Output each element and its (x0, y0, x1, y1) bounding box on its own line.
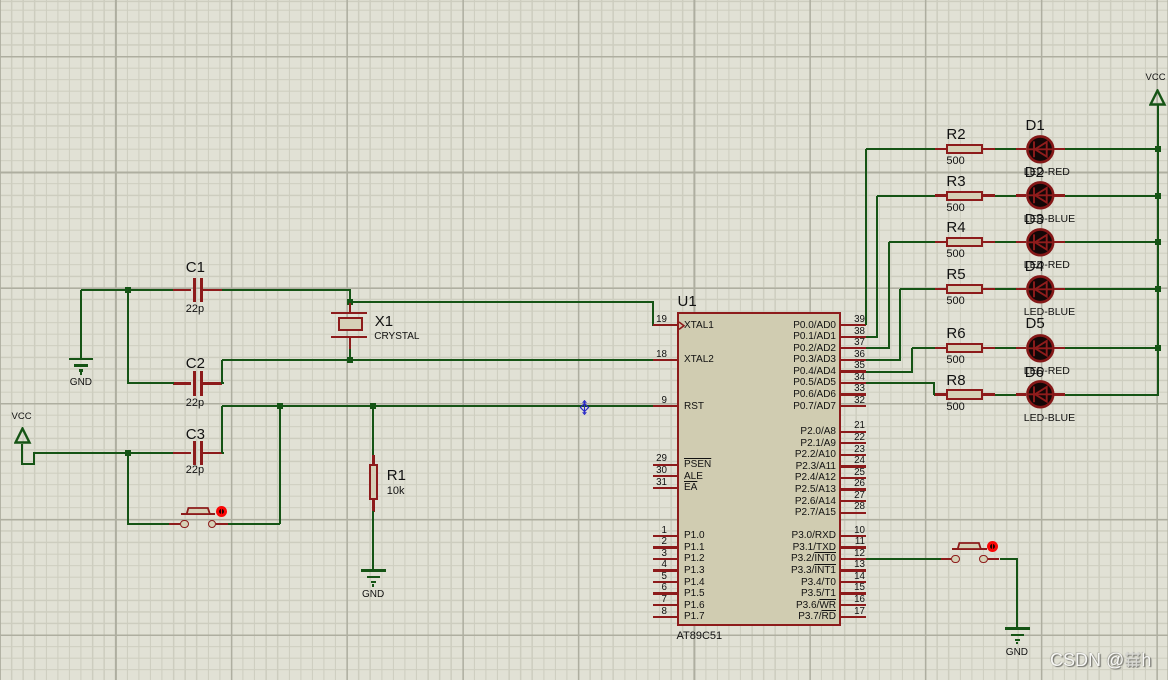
pin 24 stub (841, 465, 866, 467)
LED D2 right lead (1054, 194, 1065, 196)
pin number 35 (665, 360, 865, 371)
label D3 (1025, 211, 1044, 228)
capacitor C1 right lead (203, 289, 222, 291)
LED D4 right lead (1054, 288, 1065, 290)
wire riser R2 (865, 149, 867, 325)
wire resistor to LED (995, 394, 1017, 396)
wire crystal to XTAL2 row (349, 349, 351, 361)
value 500 of R3 (946, 202, 964, 215)
label D2 (1025, 164, 1044, 181)
wire resistor to LED (995, 347, 1017, 349)
pin label right (636, 377, 836, 389)
pin 34 stub (841, 382, 866, 384)
label R3 (946, 173, 965, 190)
pin number 3 (467, 548, 667, 559)
label U1 (678, 293, 697, 310)
junction bus row 5 (1155, 345, 1161, 351)
pin 1 stub (653, 535, 677, 537)
wire resistor to LED (995, 288, 1017, 290)
wire (33, 452, 35, 465)
pin label P1.7 (684, 611, 705, 623)
pin 26 stub (841, 488, 866, 490)
pin 21 stub (841, 431, 866, 433)
pin number 33 (665, 383, 865, 394)
label D5 (1026, 315, 1045, 332)
pin 12 stub (841, 558, 866, 560)
resistor R6 (946, 343, 983, 353)
resistor R4 (946, 237, 983, 247)
wire to ground (80, 290, 82, 359)
wire riser R5 (899, 289, 901, 360)
pin number 23 (665, 444, 865, 455)
wire resistor to LED (995, 148, 1017, 150)
value AT89C51 (677, 630, 723, 643)
pin number 19 (467, 314, 667, 325)
LED D1 left lead (1016, 148, 1026, 150)
junction C1 row (125, 287, 131, 293)
pin number 7 (467, 594, 667, 605)
label C2 (186, 355, 205, 372)
wire pin to riser R5 (866, 359, 902, 361)
pin number 37 (665, 337, 865, 348)
pin 3 stub (653, 558, 677, 560)
pin label right (636, 366, 836, 378)
capacitor C1 plates (193, 278, 196, 302)
pin label right (636, 472, 836, 484)
pin label P1.4 (684, 577, 705, 589)
pin 37 stub (841, 347, 866, 349)
junction bus row 1 (1155, 146, 1161, 152)
pin number 31 (467, 477, 667, 488)
label C3 (186, 426, 205, 443)
pin 8 stub (653, 616, 677, 618)
junction node RST-cap (125, 450, 131, 456)
wire to button (127, 453, 129, 525)
wire to R5 (900, 288, 935, 290)
label GND right (1006, 647, 1028, 659)
resistor R3 left lead (935, 194, 947, 196)
wire button to ground (1016, 559, 1018, 628)
pin number 16 (665, 594, 865, 605)
pin label <span class='ov'>PSEN</span> (684, 459, 711, 471)
resistor R8 left lead (935, 393, 947, 395)
value 500 of R4 (946, 248, 964, 261)
LED D2 (1026, 181, 1055, 210)
resistor R5 left lead (935, 288, 947, 290)
push-button switch left (169, 523, 180, 525)
junction crystal bottom node (347, 357, 353, 363)
wire pin to riser R4 (866, 347, 890, 349)
wire drop R8 (933, 383, 935, 395)
pin number 29 (467, 453, 667, 464)
wire riser R3 (876, 196, 878, 337)
wire (228, 523, 281, 525)
wire pin to riser R3 (866, 336, 879, 338)
pin 19 stub (653, 324, 677, 326)
resistor R4 right lead (983, 241, 995, 243)
value LED-BLUE D6 (1024, 412, 1075, 424)
pin number 18 (467, 349, 667, 360)
wire LED to VCC bus (1065, 347, 1159, 349)
resistor R2 left lead (935, 148, 947, 150)
LED D6 (1026, 380, 1055, 409)
LED D6 left lead (1016, 393, 1026, 395)
pin label P1.0 (684, 530, 705, 542)
wire C1 left (81, 289, 174, 291)
resistor R5 (946, 284, 983, 294)
wire LED to VCC bus (1065, 288, 1159, 290)
pin number 12 (665, 548, 865, 559)
pin label <span class='ov'>EA</span> (684, 482, 697, 494)
label C1 (186, 259, 205, 276)
LED D1 (1026, 135, 1055, 164)
pin 35 stub (841, 370, 866, 372)
junction bus row 2 (1155, 193, 1161, 199)
pin label right (636, 530, 836, 542)
pin label right (636, 553, 836, 565)
pin 14 stub (841, 581, 866, 583)
pin 16 stub (841, 604, 866, 606)
wire to R4 (889, 241, 936, 243)
pin 32 stub (841, 405, 866, 407)
value 500 of R8 (946, 401, 964, 414)
crystal X1 (349, 303, 351, 313)
label D4 (1025, 258, 1044, 275)
wire to R6 (912, 347, 935, 349)
wire (1000, 558, 1018, 560)
wire resistor to LED (995, 241, 1017, 243)
resistor R2 right lead (983, 148, 995, 150)
LED D2 left lead (1016, 194, 1026, 196)
resistor R8 (946, 389, 983, 399)
pin label right (636, 496, 836, 508)
wire RST row (222, 405, 654, 407)
wire button to RST (279, 406, 281, 524)
value 10k (387, 485, 405, 498)
pin 7 stub (653, 604, 677, 606)
pin label XTAL1 (684, 320, 714, 332)
pin label P1.5 (684, 588, 705, 600)
resistor R2 (946, 144, 983, 154)
pin number 28 (665, 501, 865, 512)
pin label right (636, 449, 836, 461)
label D6 (1025, 364, 1044, 381)
pin number 25 (665, 467, 865, 478)
wire riser R4 (888, 242, 890, 348)
pin 11 stub (841, 546, 866, 548)
resistor R1 (369, 464, 379, 500)
wire VCC bus (1157, 104, 1159, 396)
capacitor C3 left lead (173, 452, 191, 454)
resistor R1 top lead (372, 455, 374, 464)
wire C2 left (128, 382, 174, 384)
pin label P1.1 (684, 542, 705, 554)
label VCC right (1146, 73, 1166, 84)
pin label XTAL2 (684, 354, 714, 366)
wire VCC stem (21, 444, 23, 466)
pin 2 stub (653, 546, 677, 548)
pin number 17 (665, 606, 865, 617)
LED D3 (1026, 228, 1055, 257)
value LED-RED (1024, 365, 1070, 377)
wire LED to VCC bus (1065, 195, 1159, 197)
value 22p of C3 (186, 464, 204, 477)
label R2 (946, 126, 965, 143)
label R4 (946, 219, 965, 236)
LED D3 left lead (1016, 241, 1026, 243)
watermark CSDN (1050, 650, 1151, 671)
wire to R3 (877, 195, 935, 197)
pin number 10 (665, 525, 865, 536)
label R5 (946, 266, 965, 283)
capacitor C1 left lead (173, 289, 191, 291)
wire resistor to LED (995, 195, 1017, 197)
wire LED to VCC bus (1065, 148, 1159, 150)
wire pin35 to riser (866, 371, 913, 373)
capacitor C2 left lead (173, 382, 191, 384)
pin label right (636, 507, 836, 519)
pin label P1.6 (684, 600, 705, 612)
capacitor C2 plates (193, 371, 196, 395)
pin number 34 (665, 372, 865, 383)
ground symbol middle (361, 569, 386, 572)
wire P3.2 to button (866, 558, 941, 560)
wire node to XTAL1 (350, 301, 654, 303)
capacitor C3 plates (193, 441, 196, 465)
push-button switch right (941, 558, 952, 560)
pin 36 stub (841, 359, 866, 361)
LED D5 (1026, 334, 1055, 363)
pin number 26 (665, 478, 865, 489)
pin label right (636, 354, 836, 366)
value LED-RED (1024, 166, 1070, 178)
pin label right (636, 438, 836, 450)
pin label right (636, 565, 836, 577)
pin 39 stub (841, 324, 866, 326)
pin label right (636, 600, 836, 612)
ground symbol left (69, 358, 94, 361)
wire (349, 290, 351, 302)
pin 29 stub (653, 464, 677, 466)
junction bus row 4 (1155, 286, 1161, 292)
pin label right (636, 389, 836, 401)
pin number 5 (467, 571, 667, 582)
pin number 4 (467, 559, 667, 570)
pin number 38 (665, 326, 865, 337)
pin label right (636, 401, 836, 413)
pin 4 stub (653, 569, 677, 571)
pin 9 stub (653, 405, 677, 407)
wire riser R6 (911, 348, 913, 371)
pin 5 stub (653, 581, 677, 583)
value 500 of R2 (946, 155, 964, 168)
LED D6 right lead (1054, 393, 1065, 395)
wire down to pin19 (652, 302, 654, 326)
pin number 14 (665, 571, 865, 582)
resistor R5 right lead (983, 288, 995, 290)
pin 33 stub (841, 393, 866, 395)
pin 27 stub (841, 500, 866, 502)
wire RST to R1 (372, 406, 374, 455)
pin number 30 (467, 465, 667, 476)
pin label right (636, 542, 836, 554)
resistor R3 right lead (983, 194, 995, 196)
wire VCC to C3 (34, 452, 173, 454)
junction bus row 3 (1155, 239, 1161, 245)
value 500 of R5 (946, 295, 964, 308)
value 22p of C1 (186, 303, 204, 316)
pin label right (636, 588, 836, 600)
junction RST-R1 (370, 403, 376, 409)
wire C1 to crystal node (222, 289, 351, 291)
pin 13 stub (841, 569, 866, 571)
pin 31 stub (653, 487, 677, 489)
wire LED to VCC bus (1065, 394, 1159, 396)
wire (21, 463, 35, 465)
wire to R2 (866, 148, 936, 150)
wire (222, 382, 224, 384)
value 22p of C2 (186, 397, 204, 410)
pin number 8 (467, 606, 667, 617)
ground symbol right (1005, 627, 1030, 630)
wire (128, 523, 169, 525)
pin 25 stub (841, 477, 866, 479)
pin label right (636, 577, 836, 589)
label GND middle (362, 589, 384, 601)
pin 23 stub (841, 454, 866, 456)
pin marker XTAL1 (678, 321, 686, 331)
pin label right (636, 611, 836, 623)
wire (221, 406, 223, 453)
label R8 (946, 372, 965, 389)
value LED-BLUE D4 (1024, 306, 1075, 318)
pin label P1.2 (684, 553, 705, 565)
wire R1 to ground (372, 511, 374, 570)
label D1 (1026, 117, 1045, 134)
value LED-BLUE (1024, 213, 1075, 225)
pin 6 stub (653, 592, 677, 594)
resistor R6 left lead (935, 347, 947, 349)
cursor crosshair (579, 400, 590, 415)
junction RST-button (277, 403, 283, 409)
junction crystal top node (347, 299, 353, 305)
capacitor C2 right lead (203, 382, 222, 384)
LED D5 left lead (1016, 347, 1026, 349)
label R1 (387, 467, 406, 484)
pin number 6 (467, 582, 667, 593)
pin number 24 (665, 455, 865, 466)
pin label right (636, 320, 836, 332)
pin number 39 (665, 314, 865, 325)
LED D4 left lead (1016, 288, 1026, 290)
pin label ALE (684, 471, 703, 483)
wire (221, 360, 223, 385)
pin label right (636, 461, 836, 473)
pin number 13 (665, 559, 865, 570)
label R6 (946, 325, 965, 342)
pin number 15 (665, 582, 865, 593)
wire C1-C2 branch (127, 290, 129, 384)
pin 15 stub (841, 592, 866, 594)
wire pin34 to R8 (866, 382, 936, 384)
label GND left (70, 377, 92, 389)
pin 38 stub (841, 336, 866, 338)
pin label right (636, 426, 836, 438)
pin 28 stub (841, 512, 866, 514)
value 500 of R6 (946, 354, 964, 367)
pin label P1.3 (684, 565, 705, 577)
pin number 32 (665, 395, 865, 406)
wire (222, 452, 224, 454)
resistor R3 (946, 191, 983, 201)
capacitor C3 right lead (203, 452, 222, 454)
pin number 1 (467, 525, 667, 536)
wire to R8 (933, 394, 936, 396)
resistor R8 right lead (983, 393, 995, 395)
pin number 27 (665, 490, 865, 501)
pin number 11 (665, 536, 865, 547)
pin label right (636, 343, 836, 355)
pin number 22 (665, 432, 865, 443)
power VCC symbol right (1149, 89, 1167, 108)
LED D4 (1026, 275, 1055, 304)
resistor R4 left lead (935, 241, 947, 243)
power VCC symbol left (14, 427, 32, 446)
value LED-RED (1024, 259, 1070, 271)
LED D3 right lead (1054, 241, 1065, 243)
wire LED to VCC bus (1065, 241, 1159, 243)
pin label RST (684, 401, 704, 413)
pin 30 stub (653, 475, 677, 477)
pin 17 stub (841, 616, 866, 618)
LED D5 right lead (1054, 347, 1065, 349)
value CRYSTAL (374, 331, 419, 343)
pin 22 stub (841, 442, 866, 444)
wire XTAL2 row (222, 359, 654, 361)
pin number 36 (665, 349, 865, 360)
pin 18 stub (653, 359, 677, 361)
label X1 (375, 313, 393, 330)
resistor R1 bottom lead (372, 500, 374, 512)
pin number 2 (467, 536, 667, 547)
resistor R6 right lead (983, 347, 995, 349)
pin label right (636, 331, 836, 343)
pin label right (636, 484, 836, 496)
pin 10 stub (841, 535, 866, 537)
pin number 9 (467, 395, 667, 406)
label VCC left (12, 412, 32, 423)
op-amp U1 body (AT89C51 chip) (677, 312, 841, 626)
LED D1 right lead (1054, 148, 1065, 150)
pin number 21 (665, 420, 865, 431)
